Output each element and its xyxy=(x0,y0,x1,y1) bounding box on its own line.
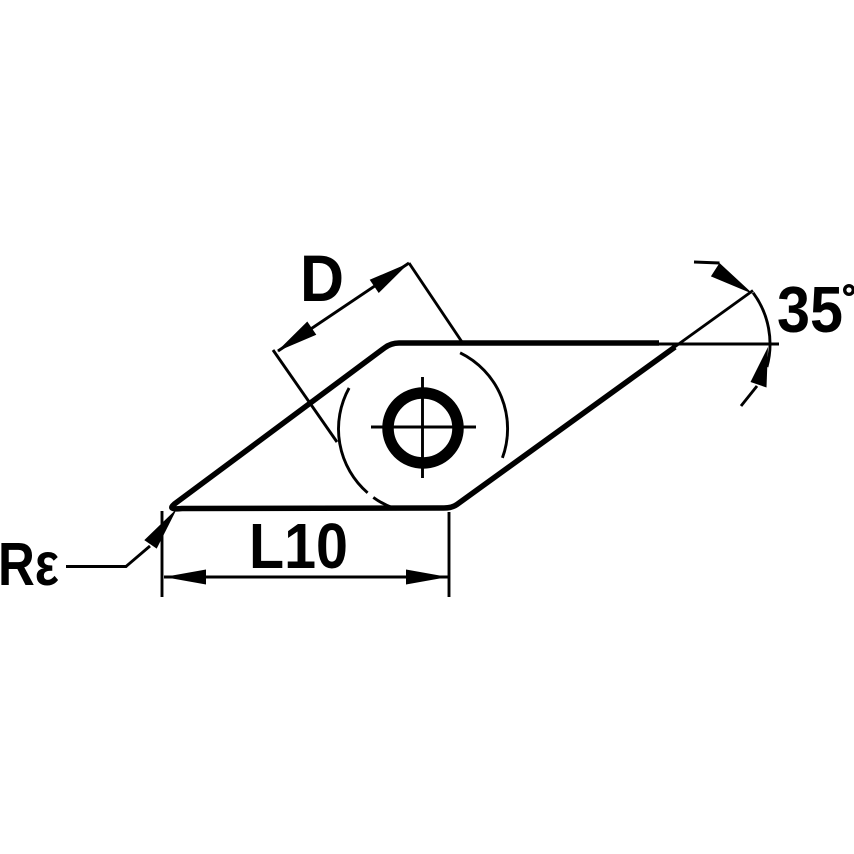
svg-text:Rε: Rε xyxy=(0,530,59,598)
insert body outline xyxy=(172,343,675,509)
counterbore circle arc right xyxy=(460,353,507,458)
R epsilon arrow xyxy=(144,509,177,549)
hole centerline horizontal xyxy=(371,426,476,429)
counterbore circle arc left xyxy=(338,388,367,493)
dimension L10 extension left xyxy=(161,511,164,597)
svg-text:L10: L10 xyxy=(249,510,348,582)
svg-text:35: 35 xyxy=(777,273,843,346)
angle 35 arc xyxy=(753,293,770,367)
dimension D extension line lower xyxy=(273,350,337,442)
angle 35 top arrow tail xyxy=(694,262,720,263)
hole circle xyxy=(388,393,458,463)
wire thin diagonal edge extension xyxy=(662,291,753,357)
angle 35 bottom arrow xyxy=(751,347,769,388)
dimension D arrow upper xyxy=(370,263,409,293)
hole centerline vertical xyxy=(421,377,424,478)
angle 35 top arrow xyxy=(711,263,753,294)
svg-text:D: D xyxy=(300,242,344,315)
counterbore circle arc bottom xyxy=(373,497,394,508)
angle 35 bottom arrow tail xyxy=(741,386,757,406)
dimension D arrow lower xyxy=(277,322,316,352)
dimension L10 line xyxy=(164,576,448,579)
dimension L10 arrow right xyxy=(406,570,448,585)
wire thin horizontal edge extension xyxy=(659,343,779,346)
degree symbol xyxy=(845,286,854,295)
dimension L10 arrow left xyxy=(164,570,206,585)
dimension D line xyxy=(278,263,409,351)
dimension D extension line upper xyxy=(409,263,462,342)
dimension L10 extension right xyxy=(448,512,451,597)
R epsilon leader line xyxy=(66,546,150,567)
